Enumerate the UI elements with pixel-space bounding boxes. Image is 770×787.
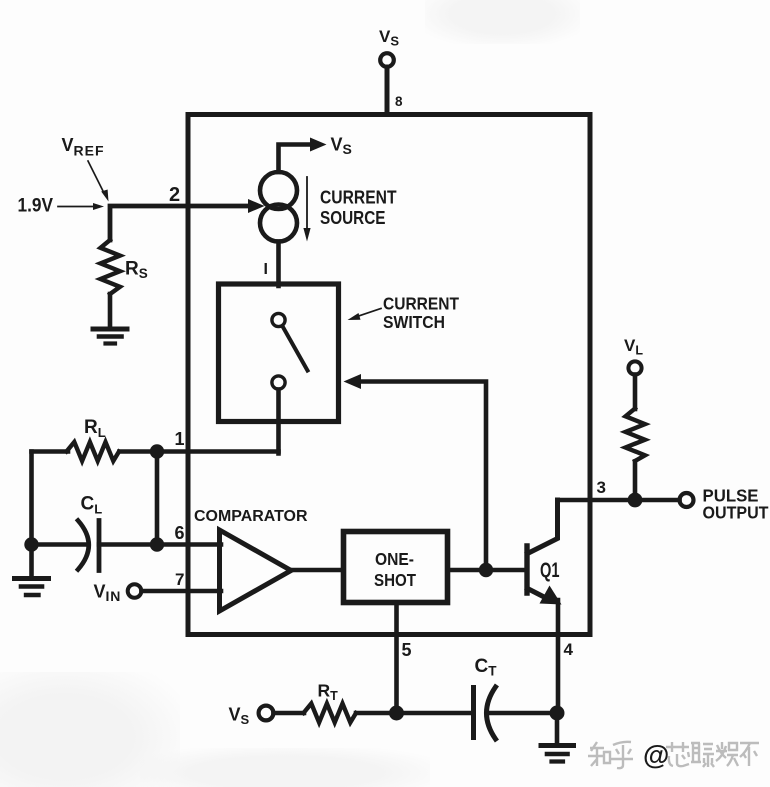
娱 bbox=[716, 742, 738, 766]
svg-text:OUTPUT: OUTPUT bbox=[703, 503, 769, 523]
芯 bbox=[666, 742, 689, 766]
svg-text:1: 1 bbox=[175, 429, 185, 449]
IC package box U1 bbox=[188, 115, 590, 635]
wire CT to pin4 bbox=[487, 711, 557, 716]
svg-text:@: @ bbox=[643, 740, 669, 770]
乎 bbox=[611, 742, 633, 768]
wire pin8 bbox=[385, 67, 390, 114]
switch contact bottom bbox=[272, 376, 285, 389]
pin 7 wire bbox=[142, 589, 222, 594]
resistor RT bbox=[304, 704, 357, 723]
terminal VS top bbox=[380, 53, 394, 67]
pin 3 wire bbox=[558, 498, 680, 503]
current switch box bbox=[219, 284, 339, 422]
Q1 emitter bbox=[528, 589, 550, 600]
junction CL left bbox=[24, 537, 38, 551]
terminal VIN bbox=[128, 584, 142, 598]
svg-text:4: 4 bbox=[564, 640, 574, 659]
wire to switch bbox=[276, 242, 281, 287]
one-shot box bbox=[344, 532, 448, 603]
watermark 知乎 @芯聯娱乐 (drawn strokes, gray) bbox=[588, 740, 759, 770]
wire to CL bbox=[32, 542, 87, 547]
switch contact top bbox=[272, 313, 285, 326]
ground (RS) bbox=[93, 329, 127, 344]
ground (CT) bbox=[541, 746, 574, 762]
pin 6 wire bbox=[157, 542, 221, 547]
leader arrow from 1.9V bbox=[58, 206, 94, 208]
capacitor CT bbox=[471, 688, 476, 738]
svg-text:5: 5 bbox=[402, 640, 412, 660]
current source circles bbox=[260, 172, 297, 209]
junction pin5/RT bbox=[389, 706, 404, 721]
乐 bbox=[740, 743, 759, 766]
wire CL to pin6 junction bbox=[99, 542, 157, 547]
svg-text:I: I bbox=[264, 261, 268, 278]
current source I1 bbox=[260, 135, 397, 287]
op-amp comparator triangle bbox=[220, 530, 292, 611]
VIN / pin 7 bbox=[94, 570, 222, 604]
switch blade bbox=[284, 328, 308, 371]
svg-text:6: 6 bbox=[175, 523, 185, 543]
Q1 collector bbox=[528, 500, 558, 554]
wire comparator out bbox=[291, 568, 343, 573]
pin 5 wire bbox=[394, 603, 399, 713]
current direction arrow bbox=[306, 177, 308, 229]
terminal PULSE OUTPUT bbox=[680, 493, 694, 507]
junction feedback bbox=[479, 563, 493, 577]
emitter wire / pin 4 bbox=[556, 600, 561, 713]
svg-text:1.9V: 1.9V bbox=[18, 196, 54, 217]
pin 1 / RL / CL network bbox=[15, 417, 279, 595]
terminal VS bottom bbox=[259, 706, 274, 721]
wire bbox=[274, 711, 305, 716]
svg-text:SWITCH: SWITCH bbox=[383, 312, 445, 332]
wire to CT bbox=[397, 711, 472, 716]
comparator bbox=[194, 508, 343, 611]
svg-text:Q1: Q1 bbox=[540, 559, 560, 582]
Q1 base bar bbox=[524, 546, 529, 593]
feedback wire from one-shot to switch bbox=[359, 382, 486, 571]
junction pin6 bbox=[150, 537, 164, 551]
one-shot bbox=[344, 532, 528, 714]
svg-text:CURRENT: CURRENT bbox=[320, 188, 397, 208]
ground (CL) bbox=[29, 545, 34, 577]
current switch bbox=[219, 284, 487, 570]
junction pin1 bbox=[150, 444, 164, 458]
arrow into current source bbox=[248, 199, 265, 213]
capacitor CL bbox=[78, 521, 89, 570]
arrow to VS bbox=[310, 138, 327, 152]
wire pin2 bbox=[110, 206, 251, 240]
svg-text:3: 3 bbox=[597, 478, 606, 497]
bottom RT / CT network bbox=[229, 656, 574, 762]
svg-text:2: 2 bbox=[169, 184, 180, 206]
arrow into switch bbox=[344, 374, 362, 389]
svg-text:CURRENT: CURRENT bbox=[383, 294, 459, 314]
svg-text:8: 8 bbox=[395, 94, 403, 109]
resistor load VL bbox=[633, 375, 638, 410]
leader arrow to switch box bbox=[357, 309, 381, 317]
junction output bbox=[628, 493, 643, 508]
svg-text:7: 7 bbox=[175, 570, 184, 589]
pin 1 wire bbox=[157, 449, 279, 454]
svg-text:SOURCE: SOURCE bbox=[320, 208, 386, 228]
wire junction1 to junction6 bbox=[155, 452, 160, 545]
wire switch bottom to pin1 rail bbox=[276, 390, 281, 454]
知 bbox=[588, 742, 610, 766]
leader arrow from VREF bbox=[88, 161, 104, 193]
wire to ground bbox=[555, 713, 560, 742]
VREF / pin 2 input bbox=[18, 135, 265, 344]
wire one-shot out to Q1 base bbox=[448, 568, 527, 573]
transistor Q1 bbox=[527, 500, 574, 713]
svg-text:SHOT: SHOT bbox=[374, 570, 416, 590]
junction pin4/CT bbox=[550, 706, 565, 721]
聯 bbox=[691, 743, 714, 767]
resistor RS bbox=[101, 240, 121, 294]
svg-text:ONE-: ONE- bbox=[375, 549, 414, 569]
pulse output / pin 3 bbox=[558, 336, 769, 523]
terminal VL bbox=[628, 361, 641, 374]
wire left rail down bbox=[29, 452, 34, 545]
resistor RL bbox=[32, 449, 69, 454]
svg-text:COMPARATOR: COMPARATOR bbox=[194, 508, 308, 525]
wire to internal VS bbox=[279, 145, 313, 173]
